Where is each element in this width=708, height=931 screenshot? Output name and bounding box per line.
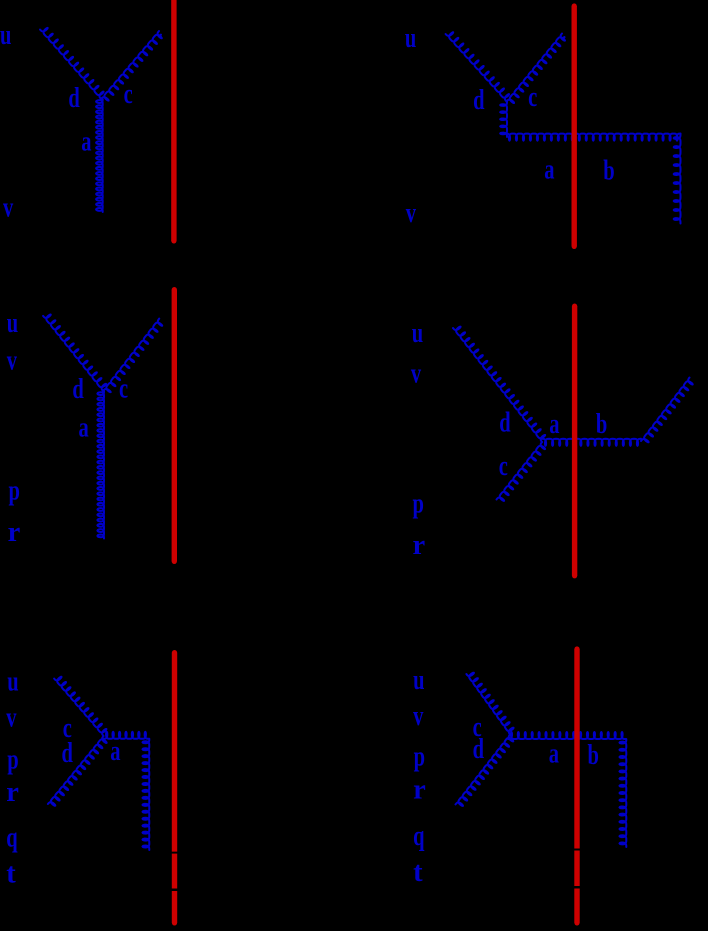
svg-text:v: v (413, 701, 424, 732)
svg-text:p: p (9, 476, 20, 507)
svg-text:u: u (7, 308, 19, 339)
svg-text:u: u (405, 23, 417, 54)
svg-text:d: d (62, 738, 74, 769)
svg-text:u: u (7, 666, 19, 697)
svg-text:a: a (549, 738, 560, 769)
svg-text:d: d (72, 374, 84, 405)
svg-text:d: d (499, 407, 511, 438)
svg-text:v: v (7, 346, 18, 377)
svg-text:b: b (588, 740, 599, 771)
svg-text:t: t (413, 857, 423, 888)
svg-text:b: b (603, 155, 614, 186)
svg-text:p: p (414, 742, 425, 773)
svg-text:a: a (544, 154, 555, 185)
svg-text:v: v (6, 702, 17, 733)
svg-text:a: a (549, 409, 560, 440)
svg-text:v: v (3, 192, 14, 223)
svg-text:p: p (7, 744, 18, 775)
svg-text:r: r (6, 777, 19, 808)
svg-text:c: c (528, 82, 537, 113)
svg-text:d: d (68, 83, 80, 114)
svg-text:d: d (473, 734, 485, 765)
svg-text:c: c (119, 373, 128, 404)
svg-text:b: b (596, 409, 607, 440)
svg-text:c: c (499, 451, 508, 482)
svg-text:u: u (413, 665, 425, 696)
svg-text:a: a (79, 412, 90, 443)
svg-text:u: u (0, 20, 12, 51)
svg-text:q: q (6, 822, 18, 853)
svg-text:a: a (110, 736, 121, 767)
svg-text:q: q (413, 821, 425, 852)
svg-text:v: v (411, 358, 422, 389)
svg-text:d: d (473, 85, 485, 116)
svg-text:c: c (124, 79, 133, 110)
svg-text:r: r (8, 517, 21, 548)
svg-text:v: v (406, 198, 417, 229)
svg-text:r: r (413, 774, 426, 805)
svg-text:p: p (413, 489, 424, 520)
svg-text:a: a (81, 126, 92, 157)
svg-text:u: u (412, 318, 424, 349)
svg-text:r: r (413, 530, 426, 561)
svg-text:t: t (6, 858, 16, 889)
